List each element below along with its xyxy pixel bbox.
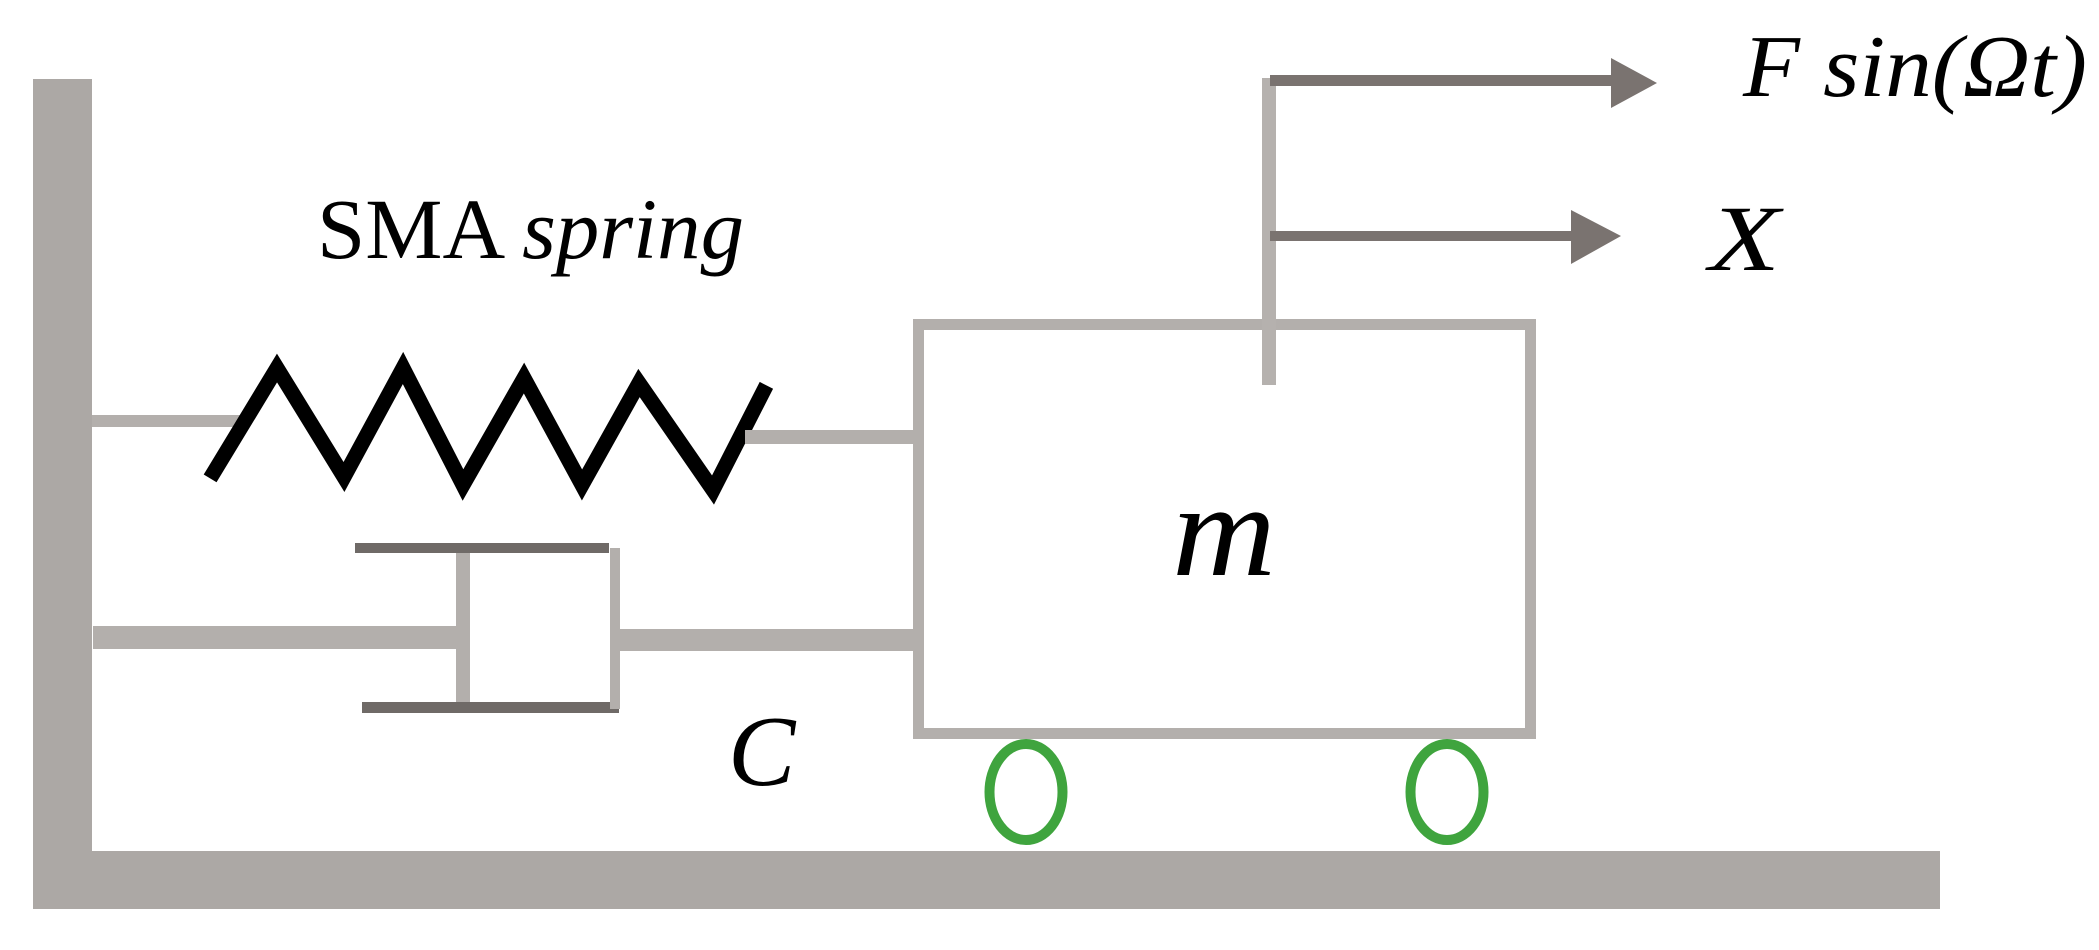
damper piston plate bbox=[456, 552, 470, 703]
damper left rod bbox=[93, 626, 457, 649]
svg-text:m: m bbox=[1172, 456, 1276, 604]
wall (fixed support, left) bbox=[33, 79, 92, 908]
wire wall to spring bbox=[92, 415, 242, 427]
damper cylinder right cap bbox=[610, 548, 620, 709]
rod from mass top bbox=[1262, 78, 1276, 385]
damper cylinder bottom line bbox=[362, 702, 619, 713]
wheel left (green) bbox=[990, 744, 1063, 840]
svg-text:X: X bbox=[1704, 188, 1784, 291]
svg-text:F sin(Ωt): F sin(Ωt) bbox=[1742, 19, 2087, 116]
mass m block bbox=[919, 325, 1531, 734]
X arrow shaft bbox=[1270, 231, 1571, 241]
damper right rod bbox=[620, 629, 913, 651]
svg-text:SMA spring: SMA spring bbox=[317, 181, 744, 277]
wheel right (green) bbox=[1411, 744, 1484, 840]
F arrow shaft bbox=[1270, 75, 1611, 86]
F arrowhead bbox=[1611, 58, 1657, 108]
wire spring to mass bbox=[745, 430, 915, 444]
svg-text:C: C bbox=[728, 695, 797, 807]
X arrowhead bbox=[1571, 210, 1621, 264]
damper cylinder top line bbox=[355, 543, 609, 553]
floor (ground) bbox=[33, 851, 1940, 909]
spring SMA (zigzag) bbox=[214, 368, 763, 490]
